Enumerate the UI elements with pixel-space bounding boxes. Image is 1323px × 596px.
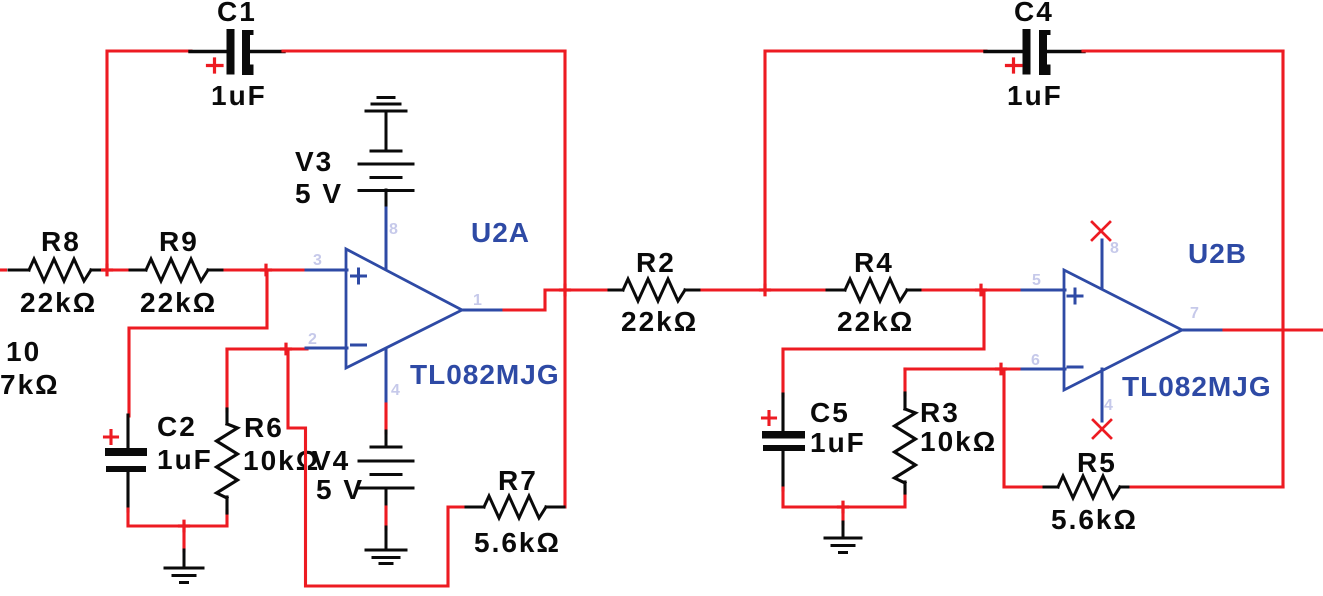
resistor R4 [827, 279, 925, 301]
node junction C5/R3/ground [839, 502, 848, 512]
wire ground stub stage2 (red) [841, 507, 844, 524]
wire pin 5 stub U2B (blue) [1022, 289, 1065, 292]
svg-text:5 V: 5 V [295, 178, 343, 209]
svg-text:U2A: U2A [471, 217, 530, 248]
svg-text:10kΩ: 10kΩ [243, 445, 320, 476]
svg-text:7kΩ: 7kΩ [0, 369, 60, 400]
wire junction down and across to C5 [783, 290, 984, 396]
svg-text:R8: R8 [41, 226, 81, 257]
wire pin 8 stub U2A (blue, from V3) [385, 208, 388, 268]
svg-text:1uF: 1uF [211, 80, 267, 111]
wire stage2 output to right edge (red) [1224, 328, 1323, 331]
wire stage2 output vertical (C4 to R5) [1281, 51, 1284, 487]
op-amp U2B triangle [1064, 270, 1182, 390]
svg-text:22kΩ: 22kΩ [140, 287, 217, 318]
wire node junction down and across to C2 [129, 270, 267, 416]
wire pin 3 stub U2A (blue) [306, 269, 347, 272]
svg-text:8: 8 [1110, 240, 1119, 257]
node junction C2/R6/ground [180, 521, 189, 531]
wire pin 1 output stub U2A (blue) [462, 309, 505, 312]
polarity plus mark C4 [1007, 59, 1022, 72]
polarity plus mark C2 [105, 431, 118, 444]
ground below C2 [165, 550, 203, 583]
ground (inverted) above battery V3 [366, 98, 406, 112]
resistor R6 [217, 409, 238, 513]
op-amp U2A plus input symbol [352, 269, 366, 283]
resistor R7 [466, 496, 564, 518]
node junction pin2 / feedback [282, 344, 291, 354]
wire ground stub (red) [182, 526, 185, 551]
wire C1 right to output vertical (red) [283, 49, 565, 52]
wire C5 bottom to R3 bottom (red) [783, 488, 905, 507]
wire C4 left branch vertical (red) [765, 51, 986, 290]
svg-text:1uF: 1uF [157, 444, 213, 475]
wire pin 6 stub U2B (blue) [1022, 368, 1065, 371]
svg-text:22kΩ: 22kΩ [621, 306, 698, 337]
svg-text:1uF: 1uF [810, 427, 866, 458]
op-amp U2B plus input symbol [1068, 289, 1082, 303]
wire R6 top to inverting input line (red) [225, 349, 228, 411]
ground below V4 [366, 527, 406, 564]
svg-text:R4: R4 [854, 247, 894, 278]
svg-text:TL082MJG: TL082MJG [1122, 371, 1272, 402]
wire stage1 output vertical (C1 to R7) [563, 51, 566, 507]
capacitor C1 [190, 29, 284, 75]
svg-text:C5: C5 [810, 397, 850, 428]
no-connect X mark pin 4 U2B [1093, 420, 1111, 438]
wire R9 to op-amp pin 3 (red) [225, 268, 307, 271]
wire R5 right to output vertical (red) [1131, 485, 1283, 488]
resistor R9 [130, 259, 226, 281]
capacitor C5 [762, 394, 805, 490]
resistor R5 [1044, 476, 1133, 498]
svg-text:22kΩ: 22kΩ [20, 287, 97, 318]
svg-text:1: 1 [473, 292, 482, 309]
svg-text:R2: R2 [636, 247, 676, 278]
op-amp U2A triangle [346, 249, 462, 368]
wire V4 bottom red segment [384, 507, 387, 529]
svg-text:7: 7 [1190, 305, 1199, 322]
wire C2 bottom to R6 bottom (red) [128, 509, 227, 526]
resistor R3 [895, 393, 916, 493]
wire pin 2 stub U2A (blue) [306, 347, 347, 350]
battery V3 [359, 111, 413, 209]
svg-text:U2B: U2B [1188, 238, 1247, 269]
svg-text:R6: R6 [244, 412, 284, 443]
node junction R9 output / C2 branch [262, 265, 271, 275]
svg-text:V3: V3 [295, 146, 333, 177]
wire C1 left branch (up from junction, across to C1) [107, 51, 191, 270]
svg-text:1uF: 1uF [1007, 80, 1063, 111]
svg-text:R7: R7 [498, 465, 538, 496]
svg-text:TL082MJG: TL082MJG [410, 359, 560, 390]
op-amp U2B minus input symbol [1068, 366, 1082, 369]
svg-text:R3: R3 [920, 397, 960, 428]
svg-text:R9: R9 [159, 226, 199, 257]
ground below C5 [825, 522, 861, 553]
polarity plus mark C1 [208, 59, 223, 72]
wire inverting input line U2A (red) [227, 347, 307, 350]
svg-text:22kΩ: 22kΩ [837, 306, 914, 337]
wire R2 to R4 (red) [702, 288, 827, 291]
node junction R4 output / C5 branch [977, 285, 986, 295]
wire pin 4 stub U2A (blue, to V4) [385, 349, 388, 405]
svg-text:5.6kΩ: 5.6kΩ [474, 527, 561, 558]
wire C4 right to output vertical (red) [1083, 49, 1283, 52]
node junction pin6 / R5 feedback [997, 364, 1006, 374]
svg-text:C4: C4 [1014, 0, 1054, 27]
svg-text:4: 4 [391, 382, 400, 399]
wire junction down to R5 (red) [1004, 369, 1046, 487]
svg-text:10kΩ: 10kΩ [920, 426, 997, 457]
wire input stub at left edge (red) [0, 268, 6, 271]
resistor R2 [609, 279, 703, 301]
wire R4 to op-amp pin 5 (red) [923, 288, 1023, 291]
node junction R8/R9/C1 [103, 265, 112, 275]
capacitor C4 [985, 29, 1084, 75]
wire stage1 output jog to R2 (red) [504, 290, 610, 310]
svg-text:2: 2 [308, 331, 317, 348]
wire pin 4 red segment to V4 [384, 404, 387, 433]
resistor R8 [9, 259, 105, 281]
svg-text:10: 10 [6, 336, 41, 367]
svg-text:4: 4 [1104, 397, 1113, 414]
svg-text:6: 6 [1031, 352, 1040, 369]
op-amp U2A minus input symbol [352, 344, 366, 347]
wire red segment R8 to R9 [103, 268, 131, 271]
no-connect X mark pin 8 U2B [1092, 222, 1110, 240]
wire pin 7 output stub U2B (blue) [1182, 329, 1225, 332]
svg-text:8: 8 [389, 221, 398, 238]
wire pin 8 stub U2B (blue) [1101, 240, 1104, 288]
wire R3 top to inverting input line (red) [903, 369, 906, 395]
svg-text:5: 5 [1032, 272, 1041, 289]
capacitor C2 [105, 415, 147, 511]
svg-text:V4: V4 [312, 445, 350, 476]
battery V4 [359, 431, 413, 509]
svg-text:C1: C1 [217, 0, 257, 27]
node junction R2/R4/C4 [761, 285, 770, 295]
svg-text:R5: R5 [1077, 447, 1117, 478]
node junction output/C1/R7 vertical [561, 285, 570, 295]
wire pin 4 stub U2B (blue) [1101, 369, 1104, 421]
svg-text:3: 3 [313, 252, 322, 269]
wire inverting input line U2B (red) [905, 367, 1023, 370]
svg-text:5 V: 5 V [316, 474, 364, 505]
polarity plus mark C5 [763, 412, 776, 425]
svg-text:C2: C2 [157, 411, 197, 442]
svg-text:5.6kΩ: 5.6kΩ [1051, 504, 1138, 535]
wire feedback loop stage1 (pin2 down, along bottom, up to R7) [288, 349, 468, 586]
